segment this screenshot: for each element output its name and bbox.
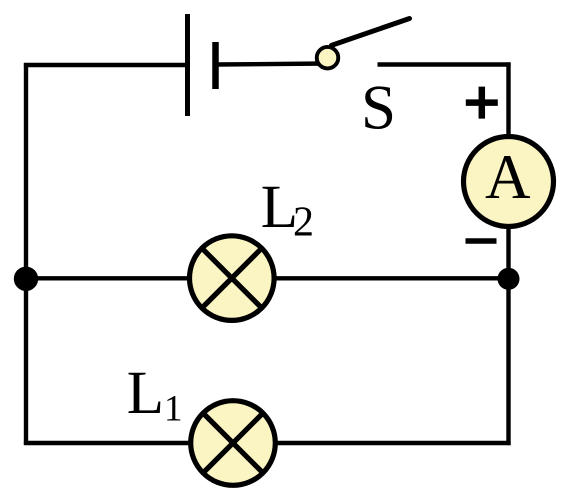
svg-text:L: L: [127, 360, 164, 427]
switch S pivot: [317, 47, 339, 68]
node: left junction: [14, 267, 38, 291]
wire: ammeter to right node: [506, 227, 510, 280]
wire: battery to switch pivot: [216, 64, 328, 65]
label - (ammeter negative terminal): [466, 238, 497, 244]
svg-text:S: S: [361, 73, 396, 143]
battery long plate (+): [185, 14, 190, 116]
wire: right vertical down to ammeter: [506, 62, 510, 137]
wire: middle branch left segment: [26, 276, 192, 280]
lamp L1: [191, 401, 276, 486]
ammeter A: [464, 137, 554, 227]
wire: bottom left segment: [24, 441, 193, 445]
svg-text:2: 2: [293, 200, 314, 246]
switch S lever: [332, 19, 410, 46]
lamp L2: [190, 236, 275, 321]
wire: top-left horizontal to battery: [24, 63, 187, 67]
wire: middle branch right segment: [272, 276, 509, 280]
svg-text:1: 1: [164, 389, 183, 430]
svg-text:A: A: [485, 142, 531, 212]
wire: switch contact to top-right corner: [378, 62, 511, 66]
wire: left vertical: [24, 63, 28, 445]
battery short plate (-): [212, 42, 219, 89]
label + (ammeter positive terminal): [466, 87, 498, 119]
node: right junction: [498, 268, 520, 290]
wire: bottom right segment: [273, 441, 511, 445]
wire: right node down to bottom-right corner: [506, 278, 510, 445]
